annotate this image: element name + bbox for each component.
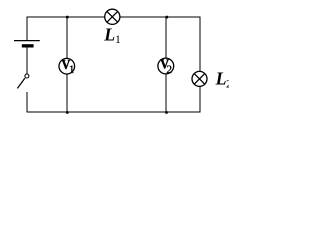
svg-text:2: 2 [166, 64, 172, 76]
svg-text:2: 2 [226, 78, 229, 91]
switch S1 pivot [25, 74, 29, 78]
wire V2 branch upper [165, 17, 167, 58]
wire top-right segment [120, 16, 201, 18]
wire right rail lower [199, 86, 201, 112]
junction node top-left [66, 16, 69, 19]
svg-text:1: 1 [115, 33, 121, 46]
wire V2 branch lower [165, 74, 167, 112]
junction node top-right [165, 16, 168, 19]
battery B1 negative plate [22, 44, 34, 47]
junction node bottom-right [165, 111, 168, 114]
wire V1 branch lower [66, 74, 68, 112]
wire left rail lower (switch to bottom) [26, 92, 28, 113]
wire top-left segment [27, 16, 105, 18]
wire left rail upper [26, 17, 28, 41]
switch S1 blade [17, 78, 25, 88]
wire bottom [27, 111, 201, 113]
voltmeter V1 [59, 58, 75, 74]
svg-text:1: 1 [69, 64, 75, 76]
voltmeter V2 [158, 58, 174, 74]
svg-text:L: L [103, 25, 115, 45]
battery B1 positive plate [14, 40, 40, 42]
wire right rail upper [199, 17, 201, 72]
wire V1 branch upper [66, 17, 68, 59]
wire left rail mid (battery to switch) [26, 48, 28, 74]
lamp L2 [192, 71, 207, 86]
lamp L1 [105, 9, 120, 24]
svg-text:L: L [215, 69, 227, 89]
junction node bottom-left [66, 111, 69, 114]
